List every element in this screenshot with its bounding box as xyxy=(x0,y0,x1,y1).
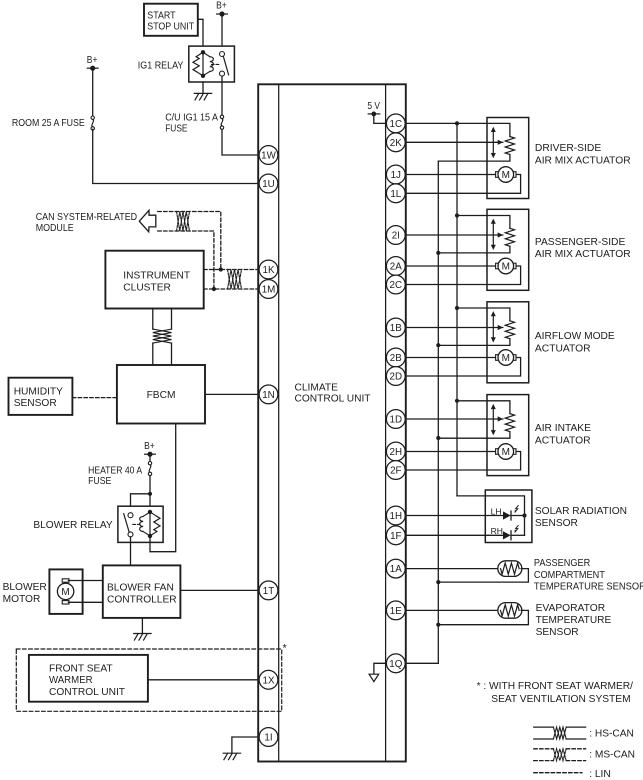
5V bus vertical wire xyxy=(456,123,458,496)
wire B+ to IG1 relay switch xyxy=(221,14,223,51)
svg-text:MOTOR: MOTOR xyxy=(3,594,41,605)
wire evaporator sensor to return bus xyxy=(438,610,528,624)
direction arrow M5 xyxy=(492,408,494,431)
airflow mode actuator M4 box xyxy=(487,302,529,383)
pin 2D xyxy=(386,367,405,386)
junction dot 5V bus (M2) xyxy=(455,121,459,125)
svg-text:C/U IG1 15 A: C/U IG1 15 A xyxy=(165,113,218,124)
blower motor M1 xyxy=(62,579,69,582)
legend LIN symbol xyxy=(534,772,582,774)
svg-text:TEMPERATURE: TEMPERATURE xyxy=(536,615,612,626)
blower relay switch contact xyxy=(128,513,133,518)
svg-text:2C: 2C xyxy=(390,280,403,291)
svg-text:1M: 1M xyxy=(262,285,276,296)
junction dot return bus (intake actuator) xyxy=(436,436,440,440)
junction dot solar cathode (LH) xyxy=(522,513,526,517)
IG1 relay switch contact xyxy=(220,52,225,57)
wire junction to blower relay switch xyxy=(131,494,151,513)
wire M3 potentiometer bottom to return bus xyxy=(438,246,510,253)
pin 2C xyxy=(386,275,405,294)
pin 1N xyxy=(259,385,278,404)
wiper wire to M2 xyxy=(406,141,499,143)
wire heater fuse to junction xyxy=(149,476,151,510)
photodiode RH xyxy=(503,531,511,539)
solar radiation sensor box xyxy=(485,490,532,543)
svg-text:1A: 1A xyxy=(390,564,402,575)
wire pin 1E to evaporator temperature sensor xyxy=(406,609,499,611)
pin 1E xyxy=(386,601,405,620)
svg-text:SEAT VENTILATION SYSTEM: SEAT VENTILATION SYSTEM xyxy=(491,694,630,705)
twisted pair symbol HS-CAN xyxy=(153,329,172,343)
svg-text:1K: 1K xyxy=(263,265,275,276)
blower relay coil xyxy=(149,512,151,536)
legend HS-CAN symbol xyxy=(534,726,554,728)
svg-text:START: START xyxy=(147,11,175,22)
wire blower relay switch to blower fan controller xyxy=(130,537,132,566)
svg-text:CONTROLLER: CONTROLLER xyxy=(107,595,177,606)
front seat warmer dashed enclosure xyxy=(16,649,281,711)
pin 1H xyxy=(386,506,405,525)
svg-text:B+: B+ xyxy=(144,441,155,452)
wire C/U IG1 fuse to pin 1W xyxy=(222,129,258,155)
thermistor evaporator temperature sensor xyxy=(498,603,522,619)
wire pin 1Q internal to arrow xyxy=(374,663,387,674)
svg-text:EVAPORATOR: EVAPORATOR xyxy=(536,603,606,614)
wire IG1 relay switch to C/U IG1 fuse xyxy=(221,76,223,115)
svg-text:1X: 1X xyxy=(263,675,275,686)
pin 2F xyxy=(386,461,405,480)
direction arrow M2 xyxy=(492,131,494,154)
svg-text:IG1 RELAY: IG1 RELAY xyxy=(138,60,184,71)
HS-CAN wire cluster to FBCM left xyxy=(152,309,154,330)
svg-text:1D: 1D xyxy=(390,415,403,426)
legend MS-CAN symbol xyxy=(534,748,554,750)
fuse F1 ROOM 25 A xyxy=(91,116,94,119)
direction arrow M3 xyxy=(492,223,494,246)
fuse F2 C/U IG1 15 A xyxy=(220,115,223,118)
svg-text:CONTROL UNIT: CONTROL UNIT xyxy=(295,393,371,404)
pin 1D xyxy=(386,410,405,429)
dashed MS-CAN wire lower (to 1M) xyxy=(158,231,214,289)
svg-text:CAN SYSTEM-RELATED: CAN SYSTEM-RELATED xyxy=(36,212,137,223)
motor in M3 xyxy=(496,263,499,269)
wire M5 potentiometer bottom to return bus xyxy=(438,432,510,439)
wire pin 1F to RH photodiode xyxy=(406,534,503,536)
wire blower relay coil to FBCM xyxy=(150,424,176,552)
svg-text:CONTROL UNIT: CONTROL UNIT xyxy=(49,687,125,698)
svg-text:AIR MIX ACTUATOR: AIR MIX ACTUATOR xyxy=(535,249,631,260)
wiper wire to M3 xyxy=(406,234,499,236)
wire passenger compartment sensor to return bus xyxy=(438,569,528,583)
junction dot on 1M wire xyxy=(212,287,216,291)
climate control unit U1 box xyxy=(258,84,406,761)
motor in M4 xyxy=(496,355,499,361)
svg-text:ROOM 25 A FUSE: ROOM 25 A FUSE xyxy=(12,118,85,129)
HS-CAN wire twist to FBCM right xyxy=(171,343,173,365)
wire B+ to heater fuse xyxy=(149,454,151,461)
climate control unit left connector strip line xyxy=(278,84,280,761)
HS-CAN wire cluster to FBCM right xyxy=(171,309,173,330)
pin 1L xyxy=(386,184,405,203)
wire M3 motor return xyxy=(406,266,521,285)
svg-text:AIR MIX ACTUATOR: AIR MIX ACTUATOR xyxy=(535,155,631,166)
wire blower motor upper to controller xyxy=(68,580,102,582)
svg-text:ACTUATOR: ACTUATOR xyxy=(535,343,591,354)
wire pin to M3 motor xyxy=(406,265,496,267)
svg-text:1W: 1W xyxy=(261,151,276,162)
pin 1Q xyxy=(386,654,405,673)
wire blower fan controller to ground xyxy=(141,618,143,633)
wire M4 potentiometer bottom to return bus xyxy=(438,339,510,346)
dashed wire instrument cluster to pin 1K xyxy=(204,269,259,271)
potentiometer M5 xyxy=(505,414,514,432)
svg-text:SENSOR: SENSOR xyxy=(14,398,57,409)
junction dot 5V bus (M5) xyxy=(455,399,459,403)
wire M2 motor return xyxy=(406,175,521,194)
svg-text:WARMER: WARMER xyxy=(49,675,93,686)
wire IG1 relay coil to ground xyxy=(202,82,204,93)
wire 5V feed to M5 potentiometer top xyxy=(457,401,510,414)
svg-text:M: M xyxy=(502,353,510,364)
start stop unit box xyxy=(144,4,198,36)
svg-text:2A: 2A xyxy=(390,262,402,273)
wire start stop unit to IG1 relay coil xyxy=(198,19,203,50)
svg-text:SENSOR: SENSOR xyxy=(535,518,578,529)
dashed wire instrument cluster to pin 1M xyxy=(204,288,259,290)
svg-text:1I: 1I xyxy=(264,733,272,744)
svg-text:2B: 2B xyxy=(390,353,402,364)
climate control unit right connector strip line xyxy=(385,84,387,761)
IG1 relay coil xyxy=(202,52,204,76)
motor in M2 xyxy=(496,172,499,178)
blower relay K2 box xyxy=(118,506,163,542)
wiper wire to M5 xyxy=(406,418,499,420)
svg-text:2D: 2D xyxy=(390,372,403,383)
sensor return bus vertical wire xyxy=(437,161,439,663)
wire FBCM to pin 1N xyxy=(205,393,258,395)
motor in M5 xyxy=(496,449,499,455)
wire pin to M4 motor xyxy=(406,357,496,359)
svg-text:1H: 1H xyxy=(390,511,403,522)
pin 1I xyxy=(259,728,278,747)
svg-text:1U: 1U xyxy=(262,179,275,190)
wire 5V feed to M4 potentiometer top xyxy=(457,308,510,321)
wire M2 potentiometer bottom to return bus xyxy=(438,155,510,162)
svg-text:2F: 2F xyxy=(390,466,401,477)
wire B+ to room fuse xyxy=(92,68,94,117)
ground (pin 1I) xyxy=(223,752,240,754)
svg-text:BLOWER FAN: BLOWER FAN xyxy=(107,582,174,593)
fuse F3 HEATER 40 A xyxy=(148,462,151,465)
svg-text:MODULE: MODULE xyxy=(36,223,74,234)
pin 1F xyxy=(386,526,405,545)
svg-text:B+: B+ xyxy=(87,55,98,66)
wire pin 1Q to return bus xyxy=(406,662,439,664)
wire 5V to pin 1C xyxy=(374,114,387,124)
svg-text:LH: LH xyxy=(491,506,502,516)
blower fan controller box xyxy=(103,565,181,618)
wire blower motor lower to controller xyxy=(68,601,102,603)
svg-text:M: M xyxy=(502,262,510,273)
pin 1W xyxy=(259,146,278,165)
svg-text:BLOWER RELAY: BLOWER RELAY xyxy=(33,520,112,531)
svg-text:1Q: 1Q xyxy=(389,659,402,670)
svg-text:FBCM: FBCM xyxy=(147,390,176,401)
ground (blower fan controller) xyxy=(134,633,151,635)
pin 1J xyxy=(386,165,405,184)
svg-text:1N: 1N xyxy=(262,390,275,401)
twisted pair symbol MS-CAN (cluster) xyxy=(228,270,242,290)
junction dot 5V bus (M3) xyxy=(455,213,459,217)
pin 1U xyxy=(259,174,278,193)
junction dot on 1K wire xyxy=(219,267,223,271)
junction dot 5V bus (M4) xyxy=(455,306,459,310)
svg-text:: HS-CAN: : HS-CAN xyxy=(589,728,634,739)
blower relay coil-contact dashed link xyxy=(133,523,142,525)
svg-text:SOLAR RADIATION: SOLAR RADIATION xyxy=(535,506,627,517)
wire 5V feed to M2 potentiometer top xyxy=(406,123,510,136)
svg-text:ACTUATOR: ACTUATOR xyxy=(535,436,591,447)
HS-CAN wire twist to FBCM left xyxy=(152,343,154,365)
wire pin 1H to LH photodiode xyxy=(406,515,503,517)
svg-text:1T: 1T xyxy=(263,586,274,597)
pin 1X xyxy=(259,670,278,689)
pin 1T xyxy=(259,581,278,600)
wire blower fan controller to pin 1T xyxy=(180,589,258,591)
svg-text:B+: B+ xyxy=(216,1,227,12)
wire pin to M5 motor xyxy=(406,451,496,453)
svg-text:2I: 2I xyxy=(392,231,400,242)
svg-text:COMPARTMENT: COMPARTMENT xyxy=(534,570,605,581)
wire front seat warmer unit to pin 1X xyxy=(148,679,258,681)
svg-text:1J: 1J xyxy=(391,170,401,181)
potentiometer M4 xyxy=(505,321,514,339)
junction dot return bus (1E sensor) xyxy=(436,623,440,627)
junction dot return bus (passenger actuator) xyxy=(436,251,440,255)
wiper wire to M4 xyxy=(406,327,499,329)
svg-text:* : WITH FRONT SEAT WARMER/: * : WITH FRONT SEAT WARMER/ xyxy=(477,681,634,692)
instrument cluster box xyxy=(105,251,203,309)
svg-text:TEMPERATURE SENSOR: TEMPERATURE SENSOR xyxy=(534,581,643,592)
svg-text:AIR INTAKE: AIR INTAKE xyxy=(535,423,591,434)
svg-text:M: M xyxy=(502,447,510,458)
svg-text:HEATER 40 A: HEATER 40 A xyxy=(88,465,142,476)
svg-text:1F: 1F xyxy=(390,531,401,542)
air intake actuator M5 box xyxy=(487,395,529,476)
CAN system-related module arrow xyxy=(139,210,156,232)
svg-text:INSTRUMENT: INSTRUMENT xyxy=(123,271,190,282)
passenger-side air mix actuator M3 box xyxy=(487,209,529,290)
ground (IG1 relay) xyxy=(194,92,211,94)
dashed LIN wire humidity sensor to FBCM xyxy=(72,397,117,399)
IG1 relay K1 box xyxy=(189,46,235,82)
pin 2H xyxy=(386,442,405,461)
svg-text:*: * xyxy=(283,643,288,655)
potentiometer M2 xyxy=(505,137,514,155)
svg-text:HUMIDITY: HUMIDITY xyxy=(14,387,63,398)
svg-text:: MS-CAN: : MS-CAN xyxy=(589,750,635,761)
pin 1M xyxy=(259,280,278,299)
svg-text:5 V: 5 V xyxy=(367,101,380,112)
wire 5V feed to M3 potentiometer top xyxy=(457,216,510,229)
svg-text:CLUSTER: CLUSTER xyxy=(123,283,171,294)
svg-text:2K: 2K xyxy=(390,138,402,149)
pin 1K xyxy=(259,260,278,279)
direction arrow M4 xyxy=(492,315,494,338)
wire pin to M2 motor xyxy=(406,174,496,176)
wire 5V bus to solar sensor xyxy=(457,496,525,535)
svg-text:DRIVER-SIDE: DRIVER-SIDE xyxy=(535,143,601,154)
wire pin 1A to passenger compartment temperature sensor xyxy=(406,568,499,570)
svg-text:AIRFLOW MODE: AIRFLOW MODE xyxy=(535,331,615,342)
svg-text:: LIN: : LIN xyxy=(589,769,611,780)
IG1 relay coil-contact dashed link xyxy=(212,63,221,65)
humidity sensor box xyxy=(9,378,73,415)
svg-text:PASSENGER: PASSENGER xyxy=(534,558,590,569)
pin 2I xyxy=(386,226,405,245)
svg-text:M: M xyxy=(61,587,69,598)
FBCM box xyxy=(117,365,205,424)
wire M4 motor return xyxy=(406,358,521,377)
pin 1B xyxy=(386,318,405,337)
pin 2K xyxy=(386,133,405,152)
svg-text:1B: 1B xyxy=(390,323,402,334)
pin 2B xyxy=(386,348,405,367)
svg-text:1C: 1C xyxy=(390,119,403,130)
junction node heater feed xyxy=(148,492,152,496)
svg-text:FUSE: FUSE xyxy=(165,124,187,135)
blower motor box xyxy=(49,569,82,614)
driver-side air mix actuator M2 box xyxy=(487,118,529,199)
wire room fuse to pin 1U xyxy=(93,129,259,183)
svg-text:FRONT SEAT: FRONT SEAT xyxy=(49,663,113,674)
wire M5 motor return xyxy=(406,452,521,471)
svg-text:2H: 2H xyxy=(390,447,403,458)
junction dot return bus (airflow actuator) xyxy=(436,343,440,347)
svg-text:STOP UNIT: STOP UNIT xyxy=(147,21,194,32)
dashed MS-CAN wire upper (to 1K) xyxy=(158,212,221,270)
pin 1A xyxy=(386,559,405,578)
svg-text:FUSE: FUSE xyxy=(88,476,111,487)
pin 2A xyxy=(386,257,405,276)
wire pin 1I to ground xyxy=(232,737,258,753)
svg-text:BLOWER: BLOWER xyxy=(3,582,47,593)
junction dot return bus (1A sensor) xyxy=(436,580,440,584)
thermistor passenger compartment temperature sensor xyxy=(498,561,522,577)
front seat warmer control unit box xyxy=(29,655,148,702)
svg-text:1E: 1E xyxy=(390,606,402,617)
svg-text:M: M xyxy=(502,170,510,181)
photodiode LH xyxy=(503,511,511,519)
svg-text:1L: 1L xyxy=(390,189,401,200)
potentiometer M3 xyxy=(505,228,514,246)
svg-text:RH: RH xyxy=(491,526,503,536)
svg-text:CLIMATE: CLIMATE xyxy=(295,382,339,393)
signal arrow (1Q internal) xyxy=(369,674,379,681)
svg-text:SENSOR: SENSOR xyxy=(536,627,579,638)
twisted pair symbol MS-CAN (module) xyxy=(177,212,190,232)
pin 1C xyxy=(386,114,405,133)
svg-text:PASSENGER-SIDE: PASSENGER-SIDE xyxy=(535,237,626,248)
